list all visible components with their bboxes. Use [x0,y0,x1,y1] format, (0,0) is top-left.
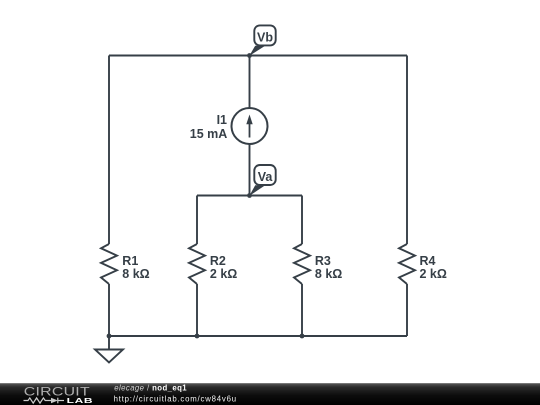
footer bar [0,383,540,405]
wire bottom rail [109,335,407,337]
wire current source top [249,56,251,109]
node Vb label pointer [249,46,265,56]
wire right column lower [406,284,408,336]
CircuitLab logo symbol [24,398,65,404]
svg-text:I1: I1 [217,113,227,127]
node Va junction dot [247,193,252,198]
svg-text:8 kΩ: 8 kΩ [315,267,342,281]
resistor R4 [399,244,415,284]
wire current source bottom [249,144,251,196]
svg-text:2 kΩ: 2 kΩ [210,267,237,281]
wire R2 column lower [196,284,198,336]
svg-text:Vb: Vb [257,30,273,44]
svg-text:R4: R4 [420,254,436,268]
current source I1 [232,108,268,144]
node Va label pointer [249,185,265,196]
ground [95,350,123,363]
resistor R2 [189,244,205,284]
wire R3 column lower [301,284,303,336]
svg-text:2 kΩ: 2 kΩ [420,267,447,281]
svg-text:R1: R1 [122,254,138,268]
svg-text:R3: R3 [315,254,331,268]
ground stub [108,336,110,350]
current source arrow [249,123,251,138]
wire Va rail [197,195,302,197]
resistor R1 [101,244,117,284]
node Vb junction dot [247,53,252,58]
svg-text:elecage / nod_eq1: elecage / nod_eq1 [114,383,187,392]
svg-text:Va: Va [258,170,274,184]
node Va label box [254,165,275,185]
node R2 bottom junction dot [195,334,200,339]
node ground junction dot [107,334,112,339]
resistor R3 [294,244,310,284]
wire top rail Vb [109,55,407,57]
node Vb label box [254,25,275,45]
svg-text:15 mA: 15 mA [190,127,228,141]
svg-text:http://circuitlab.com/cw84v6u: http://circuitlab.com/cw84v6u [114,395,237,404]
wire left column lower [108,284,110,336]
node R3 bottom junction dot [300,334,305,339]
svg-text:LAB: LAB [67,397,94,405]
svg-text:R2: R2 [210,254,226,268]
wire left column upper [108,56,110,245]
wire R2 column upper [196,196,198,245]
wire R3 column upper [301,196,303,245]
svg-text:8 kΩ: 8 kΩ [122,267,149,281]
wire right column upper [406,56,408,245]
